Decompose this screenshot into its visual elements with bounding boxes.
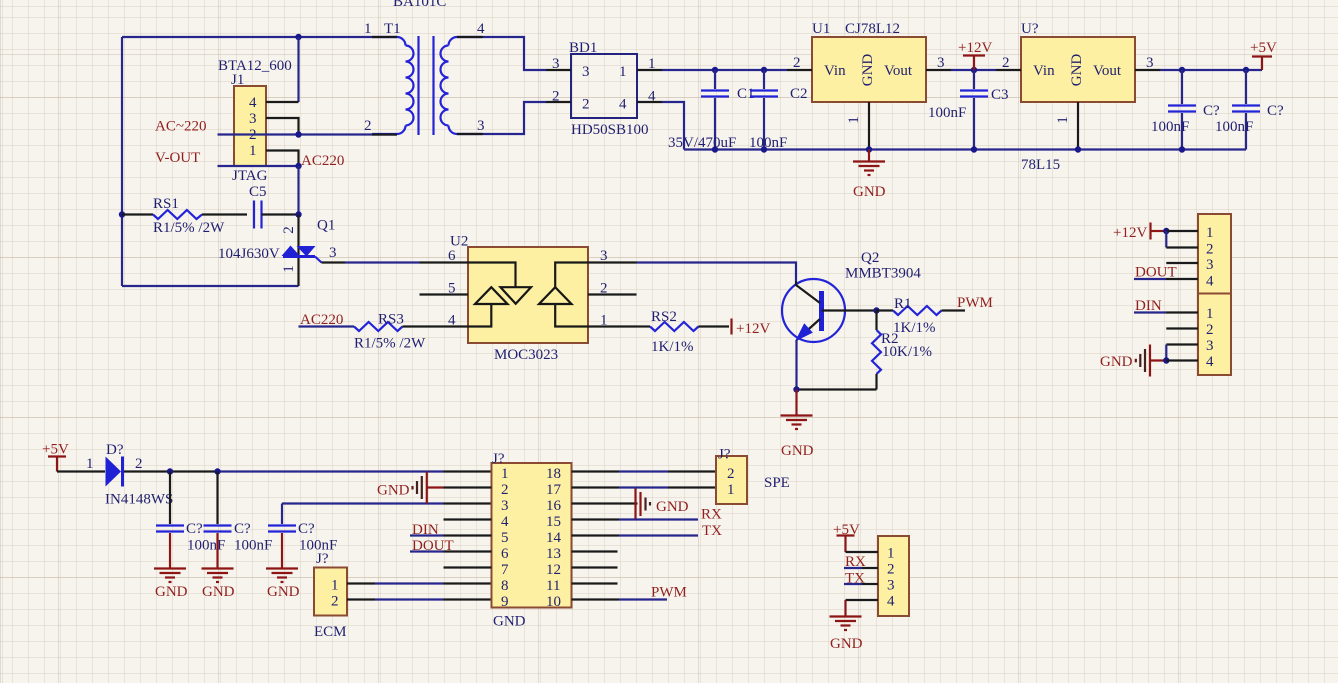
pin T1.4 (457, 36, 483, 38)
svg-text:2: 2 (727, 466, 735, 482)
wire: Q1 gate to U2 pin 6 (345, 261, 420, 263)
svg-text:1: 1 (501, 466, 509, 482)
pin U?.2 (996, 69, 1021, 71)
transistor Q1 triac 104J630V (218, 215, 335, 287)
svg-text:100nF: 100nF (749, 135, 787, 151)
svg-text:GND: GND (1069, 54, 1085, 87)
pin header2.4 (1166, 359, 1198, 361)
svg-text:100nF: 100nF (1215, 119, 1253, 135)
capacitor C? (bottom 2) 100nF (204, 472, 273, 554)
connector J? SPE (716, 447, 790, 505)
U2 internal triac triangle (539, 287, 572, 304)
svg-text:11: 11 (546, 578, 560, 594)
pin U1.3 (926, 69, 951, 71)
capacitor C? (right 1) 100nF (1151, 70, 1220, 150)
svg-text:1K/1%: 1K/1% (651, 339, 694, 355)
pin J?.14 wire TX (572, 534, 620, 536)
wire: T1 pin3 to BD1 pin2 (483, 102, 546, 134)
Q2 emitter lead (797, 319, 821, 340)
Q2 base bar (819, 291, 824, 331)
svg-text:3: 3 (249, 111, 257, 127)
wire: vertical from AC220 junction down to RS1 row (297, 166, 299, 215)
svg-text:2: 2 (135, 456, 143, 472)
node: emitter junction (793, 386, 799, 392)
wire: bottom of left loop (122, 285, 299, 287)
svg-text:6: 6 (501, 546, 509, 562)
wire: +5V rail to J? pin1 (124, 470, 218, 472)
svg-text:1: 1 (249, 143, 257, 159)
wire: left rail (V-OUT net) (121, 37, 123, 286)
node: junction at AC220 label (295, 163, 301, 169)
pin header1.1 (1166, 230, 1198, 232)
ground GND below bottom-right header (830, 600, 863, 652)
op-amp U2 MOC3023 optocoupler (448, 234, 608, 364)
svg-text:T1: T1 (384, 21, 401, 37)
svg-text:CJ78L12: CJ78L12 (845, 21, 900, 37)
power port +12V (right header) (1113, 223, 1166, 242)
wire: Q2 emitter down (795, 340, 797, 390)
capacitor C5 (249, 184, 299, 229)
wire: vertical from top junction to J1 pin 4 (297, 37, 299, 102)
svg-text:AC~220: AC~220 (155, 119, 206, 135)
svg-text:17: 17 (546, 482, 562, 498)
node: C2 bottom junction (761, 146, 767, 152)
svg-text:U1: U1 (812, 21, 830, 37)
pin J1.1 stub and drop to V-OUT/AC220 net (266, 151, 299, 167)
node: C2 top junction (761, 67, 767, 73)
svg-text:GND: GND (781, 443, 814, 459)
svg-text:3: 3 (501, 498, 509, 514)
svg-text:12: 12 (546, 562, 561, 578)
pin U2.2 (588, 293, 637, 295)
node: C1 bottom junction (712, 146, 718, 152)
transformer T1 (364, 21, 485, 135)
svg-text:C?: C? (1267, 103, 1284, 119)
pin header2.2 stub (1166, 327, 1198, 329)
wire: ground rail (684, 148, 1246, 150)
svg-text:10: 10 (546, 594, 561, 610)
svg-text:2: 2 (887, 562, 895, 578)
connector header (right, DIN/GND) (1198, 294, 1231, 376)
T1 secondary winding (441, 37, 483, 134)
regulator U1 CJ78L12 (793, 21, 945, 124)
svg-text:100nF: 100nF (234, 538, 272, 554)
U2 internal LED triangles (468, 263, 516, 288)
pin T1.1 (372, 36, 397, 38)
node: +12V junction (971, 67, 977, 73)
power port +5V (bottom right) (833, 522, 860, 552)
svg-text:GND: GND (493, 614, 526, 630)
resistor RS3 R1/5% /2W (354, 312, 426, 352)
node: junction top at x298 (295, 34, 301, 40)
node: junction RS1/C5 right (295, 211, 301, 217)
pin ECM.2 wire to J? pin9 (347, 598, 375, 600)
svg-text:+5V: +5V (42, 442, 69, 458)
svg-text:BD1: BD1 (569, 40, 597, 56)
capacitor C2 100nF (749, 70, 808, 151)
resistor R2 10K/1% (797, 311, 932, 390)
pin U2.1 (588, 325, 637, 327)
svg-text:9: 9 (501, 594, 509, 610)
wire: U2 pin3 to Q2 collector (637, 263, 797, 282)
svg-text:GND: GND (267, 584, 300, 600)
pin brconn.4 to ground (846, 599, 879, 601)
pin header1.3 stub (1166, 262, 1198, 264)
svg-text:2: 2 (1002, 55, 1010, 71)
wire: AC~220 net to T1 pin 2 (218, 133, 398, 135)
svg-text:16: 16 (546, 498, 562, 514)
svg-text:8: 8 (501, 578, 509, 594)
node: +12V header junction (1163, 228, 1169, 234)
Q2 base lead (822, 309, 877, 311)
svg-text:1: 1 (1206, 225, 1214, 241)
svg-text:C1: C1 (737, 86, 755, 102)
wire: top net from left rail to T1 pin 1 (122, 36, 372, 38)
svg-text:1: 1 (619, 64, 627, 80)
pin header1.2 (1166, 246, 1198, 248)
node: cap2 junction (214, 468, 220, 474)
svg-text:C3: C3 (991, 87, 1009, 103)
svg-text:C5: C5 (249, 184, 267, 200)
pin J?.7 stub (444, 566, 492, 568)
node: U? GND rail junction (1075, 146, 1081, 152)
svg-text:2: 2 (281, 226, 297, 234)
svg-text:GND: GND (830, 636, 863, 652)
svg-text:GND: GND (1100, 354, 1133, 370)
svg-text:2: 2 (501, 482, 509, 498)
svg-text:C?: C? (1203, 103, 1220, 119)
svg-text:100nF: 100nF (1151, 119, 1189, 135)
wire: U? Vout to +5V (1160, 69, 1262, 71)
svg-text:TX: TX (702, 523, 722, 539)
ground GND sideways at J? pin16 (636, 489, 689, 519)
svg-text:3: 3 (582, 64, 590, 80)
svg-text:BTA12_600: BTA12_600 (218, 58, 292, 74)
svg-text:2: 2 (793, 55, 801, 71)
capacitor C? (right 2) 100nF (1215, 70, 1284, 150)
node: junction left rail at RS1 row (119, 211, 125, 217)
svg-text:4: 4 (1206, 354, 1214, 370)
svg-text:2: 2 (1206, 322, 1214, 338)
ground GND sideways at J? pin2 (377, 472, 444, 504)
T1 core (417, 36, 419, 135)
svg-text:3: 3 (477, 118, 485, 134)
svg-text:4: 4 (477, 21, 485, 37)
svg-text:Vin: Vin (824, 63, 846, 79)
svg-text:104J630V: 104J630V (218, 246, 280, 262)
svg-text:15: 15 (546, 514, 561, 530)
connector header (right, +12V/DOUT) (1198, 214, 1231, 294)
svg-text:1: 1 (887, 546, 895, 562)
pin J?.11 stub (572, 582, 618, 584)
pin header2.3 wire down to GND net (1166, 343, 1198, 345)
svg-text:3: 3 (887, 578, 895, 594)
node: junction J1 pin2/3 (295, 131, 301, 137)
pin BD1.3 (546, 69, 571, 71)
pin U1.1 (868, 102, 870, 150)
T1 primary winding (372, 37, 414, 134)
pin T1.3 (457, 133, 483, 135)
svg-text:1: 1 (364, 21, 372, 37)
svg-text:R1/5% /2W: R1/5% /2W (153, 220, 225, 236)
node: cap1 junction (167, 468, 173, 474)
svg-text:+12V: +12V (736, 321, 770, 337)
svg-text:3: 3 (937, 55, 945, 71)
pin J1.4 (266, 101, 299, 103)
pin U2.4 (420, 325, 469, 327)
pin J?.15 wire RX (572, 518, 620, 520)
svg-text:78L15: 78L15 (1021, 157, 1060, 173)
svg-text:PWM: PWM (651, 585, 687, 601)
svg-text:RS3: RS3 (378, 312, 404, 328)
svg-text:GND: GND (377, 483, 410, 499)
ground GND below C? 3 (266, 533, 300, 600)
svg-text:GND: GND (853, 184, 886, 200)
svg-text:HD50SB100: HD50SB100 (571, 122, 649, 138)
svg-text:R1/5% /2W: R1/5% /2W (354, 336, 426, 352)
pin Q1.3 gate lead (322, 261, 346, 263)
svg-text:IN4148WS: IN4148WS (105, 492, 173, 508)
pin BD1.2 (546, 101, 571, 103)
power port +5V (bottom left) (42, 442, 69, 472)
pin J?.16 wire to sideways ground (572, 502, 638, 504)
svg-text:2: 2 (331, 594, 339, 610)
svg-text:BA101C: BA101C (393, 0, 446, 10)
svg-text:Q2: Q2 (861, 250, 879, 266)
svg-text:GND: GND (656, 499, 689, 515)
svg-text:J?: J? (316, 551, 329, 567)
svg-text:7: 7 (501, 562, 509, 578)
capacitor C? (bottom 1) 100nF (156, 472, 225, 554)
pin J?.12 stub (572, 566, 618, 568)
resistor RS1 (122, 196, 247, 236)
svg-text:JTAG: JTAG (232, 168, 268, 184)
svg-text:R1: R1 (894, 296, 912, 312)
pin U?.3 (1135, 69, 1160, 71)
node: C3 bottom junction (971, 146, 977, 152)
pin U2.3 (588, 261, 637, 263)
regulator U? 78L15 (1002, 21, 1154, 173)
svg-text:1: 1 (331, 578, 339, 594)
svg-text:14: 14 (546, 530, 562, 546)
wire: T1 pin4 to BD1 pin3 (483, 37, 546, 70)
connector J1 BTA12_600 body (218, 58, 292, 184)
svg-text:D?: D? (106, 442, 124, 458)
svg-text:SPE: SPE (764, 475, 790, 491)
svg-text:3: 3 (329, 245, 337, 261)
svg-text:GND: GND (860, 54, 876, 87)
svg-text:18: 18 (546, 466, 561, 482)
connector header (bottom right RX/TX) (878, 536, 909, 616)
svg-text:4: 4 (1206, 274, 1214, 290)
diode D? IN4148WS (86, 442, 173, 508)
svg-text:MMBT3904: MMBT3904 (845, 266, 921, 282)
resistor R1 1K/1% (877, 296, 966, 336)
svg-text:1: 1 (1206, 306, 1214, 322)
svg-text:Vout: Vout (884, 63, 913, 79)
node: GND header junction (1163, 357, 1169, 363)
power port +12V (958, 40, 992, 70)
Q2 emitter arrow (795, 323, 813, 341)
wire: AC220 to RS3 (299, 325, 355, 327)
svg-text:35V/470uF: 35V/470uF (668, 135, 736, 151)
svg-text:J1: J1 (231, 72, 244, 88)
svg-text:C2: C2 (790, 86, 808, 102)
svg-text:13: 13 (546, 546, 561, 562)
svg-text:RS2: RS2 (651, 309, 677, 325)
pin J?.4 stub (444, 518, 492, 520)
svg-text:RX: RX (701, 507, 722, 523)
svg-text:4: 4 (887, 594, 895, 610)
pin U2.5 (420, 293, 469, 295)
bridge rectifier BD1 HD50SB100 (552, 40, 656, 138)
Q2 collector lead (796, 281, 820, 303)
power port +12V (at RS2) (732, 319, 771, 338)
svg-text:AC220: AC220 (301, 153, 344, 169)
svg-text:10K/1%: 10K/1% (882, 344, 932, 360)
wire: J? pin18 to SPE pin2 (572, 470, 620, 472)
node: Q2 base junction (873, 307, 879, 313)
pin BD1.4 (637, 101, 662, 103)
pin U1.2 (787, 69, 812, 71)
wire: C?3 to J? pin3 (282, 502, 444, 504)
capacitor C? (bottom 3) 100nF (268, 504, 337, 554)
power port +5V (top right) (1250, 40, 1277, 70)
svg-text:C?: C? (298, 521, 315, 537)
node: C? top junction 2 (1243, 67, 1249, 73)
svg-text:4: 4 (619, 97, 627, 113)
node: C? bottom rail junction (1179, 146, 1185, 152)
svg-text:MOC3023: MOC3023 (494, 347, 558, 363)
svg-text:Q1: Q1 (317, 218, 335, 234)
pin J?.2 (444, 486, 492, 488)
pin T1.2 (372, 133, 397, 135)
svg-text:J?: J? (492, 451, 505, 467)
svg-text:+12V: +12V (958, 40, 992, 56)
svg-text:J?: J? (718, 447, 731, 463)
svg-text:100nF: 100nF (187, 538, 225, 554)
svg-text:U?: U? (1021, 21, 1039, 37)
ground GND below C? 1 (154, 533, 188, 600)
ground GND below C? 2 (202, 533, 235, 600)
connector J? (18-pin header) (492, 451, 572, 630)
svg-text:1: 1 (846, 116, 862, 124)
svg-text:GND: GND (202, 584, 235, 600)
svg-text:GND: GND (155, 584, 188, 600)
pin BD1.1 (637, 69, 662, 71)
svg-text:Vin: Vin (1033, 63, 1055, 79)
svg-text:2: 2 (364, 118, 372, 134)
svg-text:+5V: +5V (1250, 40, 1277, 56)
node: C1 top junction (712, 67, 718, 73)
svg-text:4: 4 (501, 514, 509, 530)
svg-text:4: 4 (249, 95, 257, 111)
pin U2.6 (420, 261, 469, 263)
svg-text:1: 1 (86, 456, 94, 472)
node: C? top junction 1 (1179, 67, 1185, 73)
svg-text:RS1: RS1 (153, 196, 179, 212)
svg-text:3: 3 (1206, 338, 1214, 354)
resistor RS2 1K/1% (637, 309, 730, 355)
svg-text:3: 3 (1146, 55, 1154, 71)
connector J? ECM (314, 551, 347, 640)
svg-text:100nF: 100nF (928, 105, 966, 121)
svg-text:ECM: ECM (314, 624, 347, 640)
svg-text:2: 2 (1206, 242, 1214, 258)
svg-text:PWM: PWM (957, 295, 993, 311)
svg-text:1K/1%: 1K/1% (893, 320, 936, 336)
svg-text:3: 3 (1206, 257, 1214, 273)
capacitor C1 35V/470uF (668, 70, 755, 151)
svg-text:2: 2 (582, 97, 590, 113)
svg-text:V-OUT: V-OUT (155, 150, 200, 166)
ground GND below Q2 (781, 390, 814, 460)
ground GND below U1 (853, 150, 886, 201)
pin D?.1 lead (57, 470, 105, 472)
pin J1.3 stub and drop to AC~220 net (266, 118, 299, 135)
wire: J? pin17 to SPE pin1 (572, 486, 620, 488)
svg-text:1: 1 (727, 482, 735, 498)
svg-text:5: 5 (501, 530, 509, 546)
wire: V-OUT net row (218, 165, 299, 167)
node: U1 GND rail junction (866, 146, 872, 152)
pin J?.10 wire PWM (572, 598, 620, 600)
svg-text:1: 1 (1055, 116, 1071, 124)
pin ECM.1 wire to J? pin8 (347, 582, 375, 584)
pin U?.1 (1077, 102, 1079, 150)
svg-text:1: 1 (281, 265, 297, 273)
wire: BD1 pin4 down to ground rail (662, 102, 684, 150)
wire: BD1 pin1 to U1 Vin (662, 69, 787, 71)
svg-text:+12V: +12V (1113, 225, 1147, 241)
pin brconn.1 (846, 551, 879, 553)
svg-text:C?: C? (234, 521, 251, 537)
pin J?.13 stub (572, 550, 618, 552)
ground GND sideways (right header) (1100, 345, 1166, 377)
transistor Q2 MMBT3904 (782, 250, 921, 342)
wire: U1 Vout to U? Vin (951, 69, 996, 71)
capacitor C3 100nF (928, 70, 1009, 150)
wire: junction down to pin 2 (1165, 231, 1167, 248)
svg-text:C?: C? (186, 521, 203, 537)
svg-text:Vout: Vout (1093, 63, 1122, 79)
